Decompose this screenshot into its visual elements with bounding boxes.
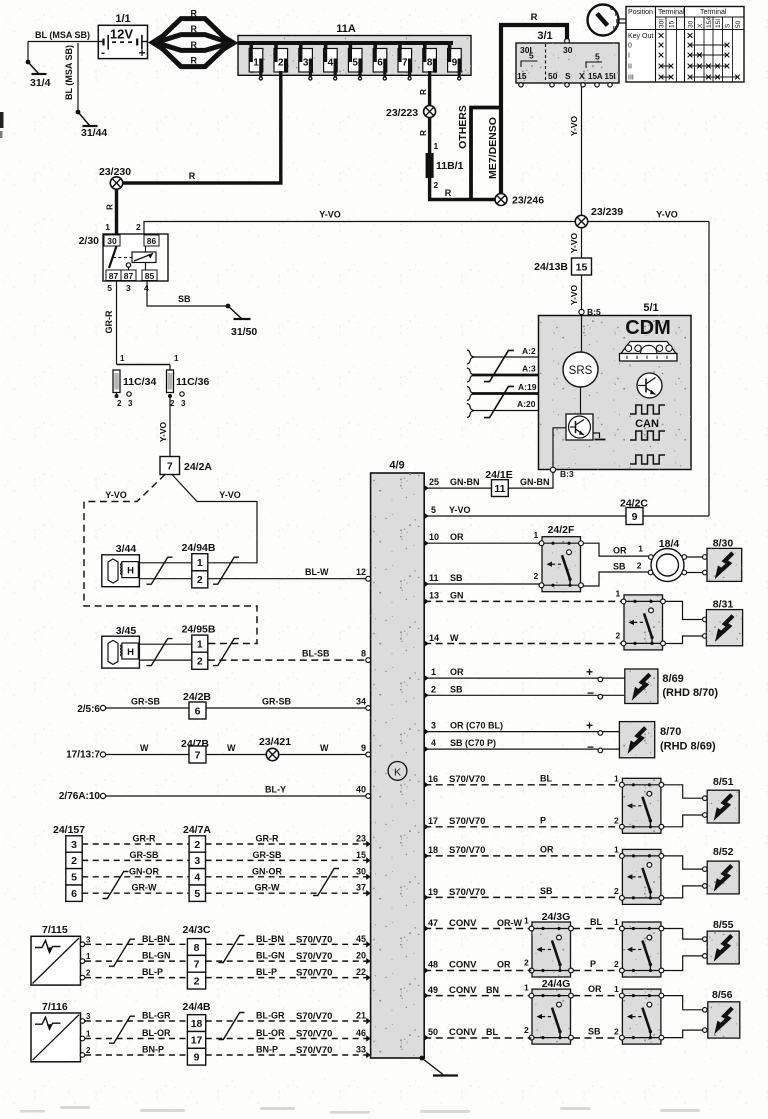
svg-text:2: 2 (86, 969, 91, 978)
svg-text:1: 1 (524, 983, 529, 993)
svg-text:R: R (106, 204, 115, 210)
svg-text:Y-VO: Y-VO (319, 210, 341, 220)
svg-text:11: 11 (429, 573, 439, 583)
svg-text:Position: Position (628, 9, 653, 16)
svg-text:15A: 15A (706, 16, 713, 28)
svg-text:Key Out: Key Out (628, 33, 653, 40)
svg-text:24/157: 24/157 (53, 824, 85, 836)
svg-text:2: 2 (197, 656, 203, 668)
svg-text:1: 1 (197, 638, 203, 650)
wire OR 24/4G to switch for 8/56 (573, 995, 621, 997)
svg-text:11C/36: 11C/36 (176, 376, 209, 388)
svg-text:GR-SB: GR-SB (131, 697, 161, 707)
svg-text:W: W (450, 633, 459, 643)
wire GR-W 24/157 to 24/7A to pin 37 (82, 892, 189, 894)
wire R 23/230 down to relay 2/30 pin 30 (115, 189, 118, 234)
key symbol at ignition (588, 5, 619, 36)
wire BL 24/3G to switch for 8/55 (573, 928, 621, 930)
wire SB 24/2F to horn ring 18/4 pin 2 (583, 572, 648, 586)
svg-text:3: 3 (126, 283, 131, 293)
svg-text:9: 9 (632, 511, 638, 523)
CAN square wave icons in CDM (630, 405, 665, 414)
svg-text:3: 3 (431, 721, 436, 731)
fuse 1 in 11A (249, 43, 253, 50)
svg-text:24/2B: 24/2B (183, 691, 211, 703)
wire Y-VO right riser down to 24/2C (708, 222, 710, 517)
svg-text:S70/V70: S70/V70 (449, 845, 485, 856)
node 23/421 (266, 748, 278, 760)
svg-text:5: 5 (595, 52, 600, 62)
svg-text:30: 30 (688, 20, 695, 28)
svg-text:5: 5 (529, 51, 534, 61)
svg-text:OR-W: OR-W (497, 918, 522, 928)
svg-text:15A: 15A (588, 72, 603, 81)
svg-text:2: 2 (170, 399, 175, 408)
svg-text:X: X (579, 71, 585, 81)
svg-text:A:20: A:20 (517, 399, 536, 409)
svg-text:1: 1 (638, 544, 643, 554)
svg-text:30: 30 (107, 236, 117, 246)
svg-text:R: R (190, 9, 197, 19)
svg-text:1: 1 (86, 1030, 91, 1039)
svg-text:GN-OR: GN-OR (252, 866, 282, 876)
svg-text:2: 2 (614, 1027, 619, 1037)
break marks at 24/95B (147, 639, 173, 666)
svg-text:1: 1 (614, 917, 619, 927)
svg-text:2: 2 (431, 685, 436, 695)
svg-text:9: 9 (452, 58, 458, 69)
svg-text:31/44: 31/44 (81, 127, 107, 139)
svg-text:BL-OR: BL-OR (142, 1028, 171, 1038)
svg-text:BL-P: BL-P (256, 967, 277, 977)
svg-text:3: 3 (86, 935, 91, 944)
svg-text:H: H (127, 647, 134, 658)
svg-text:S70/V70: S70/V70 (449, 887, 485, 898)
svg-text:34: 34 (356, 697, 366, 707)
svg-text:5: 5 (194, 888, 200, 900)
svg-text:OR: OR (588, 984, 602, 994)
svg-text:5: 5 (352, 58, 358, 69)
wire BL-Y from 2/76A:10 to pin 40 (100, 793, 105, 798)
svg-text:Y-VO: Y-VO (105, 490, 127, 500)
svg-text:GN: GN (450, 591, 464, 601)
wire bundle R battery to fuse box 11A (148, 33, 163, 52)
svg-text:15: 15 (356, 850, 366, 860)
svg-text:1: 1 (614, 774, 619, 784)
wires 18/4 to horn 8/30 (687, 556, 704, 558)
wire OR 24/2F to horn ring 18/4 pin 1 (583, 543, 648, 556)
node 23/246 (495, 194, 507, 206)
svg-text:1: 1 (120, 354, 125, 363)
svg-text:47: 47 (428, 918, 438, 928)
wire GR-SB 24/157 to 24/7A to pin 15 (82, 859, 189, 861)
svg-text:S70/V70: S70/V70 (449, 816, 485, 827)
lamp 8/70 (619, 722, 654, 758)
wire R fuse 8 down to 23/223 (428, 71, 431, 111)
svg-text:31/4: 31/4 (30, 77, 51, 89)
svg-text:87: 87 (124, 271, 134, 281)
battery 1/1 12V (98, 25, 147, 58)
instrument cluster icon in CDM (621, 342, 676, 354)
fuse 3 in 11A (299, 43, 303, 50)
svg-text:S70/V70: S70/V70 (449, 774, 485, 785)
svg-text:87: 87 (109, 271, 119, 281)
svg-text:8/70: 8/70 (660, 726, 681, 738)
svg-text:Terminal: Terminal (700, 9, 727, 16)
svg-text:-: - (101, 46, 105, 60)
svg-text:OR (C70 BL): OR (C70 BL) (450, 721, 503, 731)
svg-text:6: 6 (71, 888, 77, 900)
svg-text:OR: OR (613, 546, 627, 556)
SRS unit inside CDM (563, 352, 598, 387)
svg-text:15I: 15I (605, 72, 616, 81)
svg-text:3/44: 3/44 (116, 543, 137, 555)
svg-text:B:3: B:3 (560, 469, 574, 479)
svg-text:45: 45 (356, 934, 366, 944)
svg-text:4/9: 4/9 (389, 460, 404, 472)
svg-text:BL: BL (540, 774, 552, 784)
wire 3/45 to 24/95B pin 1 (139, 643, 191, 645)
svg-text:R: R (190, 56, 197, 66)
svg-text:8/52: 8/52 (713, 846, 734, 858)
svg-text:8/51: 8/51 (713, 776, 734, 788)
svg-text:A:2: A:2 (522, 346, 536, 356)
svg-text:14: 14 (429, 633, 439, 643)
wire Y-VO horizontal from relay 86 to right riser (144, 222, 709, 235)
wire GN-OR 24/157 to 24/7A to pin 30 (82, 876, 189, 878)
ground 31/4 (26, 60, 47, 74)
wire R 23/223 to fuse 11B/1 (428, 118, 431, 156)
svg-text:22: 22 (356, 967, 366, 977)
svg-text:R: R (445, 188, 452, 198)
wire Y-VO ignition X terminal down to 23/239 (581, 87, 583, 215)
svg-text:24/7A: 24/7A (183, 824, 211, 836)
svg-text:BL-Y: BL-Y (265, 785, 286, 795)
scan artifacts (0, 112, 4, 128)
svg-text:BL-GR: BL-GR (256, 1011, 285, 1021)
svg-text:9: 9 (361, 743, 366, 753)
svg-text:BL-GR: BL-GR (142, 1011, 171, 1021)
connector 24/2A pin 7 (160, 457, 180, 475)
fuse 9 in 11A (448, 43, 452, 50)
svg-text:SRS: SRS (569, 365, 593, 377)
svg-text:5: 5 (107, 283, 112, 293)
svg-text:Y-VO: Y-VO (656, 210, 678, 220)
svg-text:GR-SB: GR-SB (262, 697, 292, 707)
svg-text:OR: OR (450, 532, 464, 542)
svg-text:S: S (725, 23, 732, 28)
fuse box 11A (238, 36, 471, 76)
svg-text:24/4B: 24/4B (183, 1001, 211, 1013)
node 23/239 (575, 215, 587, 227)
svg-text:R: R (531, 12, 538, 23)
svg-text:−: − (587, 740, 594, 754)
wire 3/44 to 24/94B pin 1 (139, 562, 191, 564)
svg-text:1: 1 (86, 952, 91, 961)
svg-text:CONV: CONV (449, 960, 477, 971)
svg-text:2: 2 (637, 561, 642, 571)
svg-text:16: 16 (428, 774, 438, 784)
svg-text:P: P (590, 959, 596, 969)
svg-text:−: − (587, 686, 594, 700)
svg-text:19: 19 (428, 887, 438, 897)
relay 2/30 (103, 234, 168, 281)
svg-text:3: 3 (71, 839, 77, 851)
svg-text:BN-P: BN-P (142, 1045, 164, 1055)
svg-text:2/30: 2/30 (79, 235, 100, 247)
wire P 24/3G to switch for 8/55 (573, 970, 621, 972)
svg-text:49: 49 (428, 985, 438, 995)
svg-text:O: O (610, 6, 614, 12)
wire 3/44 to 24/94B pin 2 (139, 578, 191, 580)
svg-text:GR-R: GR-R (133, 834, 156, 844)
wire BN-P 7/116 pin 2 via 24/4B 9 to pin 33 (80, 1053, 85, 1058)
svg-text:R: R (190, 24, 197, 34)
svg-text:21: 21 (356, 1011, 366, 1021)
svg-text:S70/V70: S70/V70 (296, 1029, 332, 1040)
svg-text:W: W (320, 743, 329, 753)
lamp 8/69 (625, 669, 658, 704)
svg-text:GR-W: GR-W (132, 883, 157, 893)
wire BL (MSA SB) to ground 31/44 (77, 43, 79, 112)
svg-text:24/94B: 24/94B (182, 542, 216, 554)
svg-text:24/95B: 24/95B (182, 624, 216, 636)
svg-text:24/3C: 24/3C (183, 924, 211, 936)
svg-text:2/76A:10: 2/76A:10 (59, 791, 101, 802)
svg-text:II: II (628, 64, 632, 71)
svg-text:GN-BN: GN-BN (450, 477, 480, 487)
svg-text:8/31: 8/31 (713, 599, 734, 611)
ground 31/50 (226, 304, 251, 319)
wire 3/45 to 24/95B pin 2 (139, 659, 191, 661)
svg-text:3: 3 (86, 1012, 91, 1021)
svg-text:2: 2 (614, 886, 619, 896)
svg-text:Y-VO: Y-VO (569, 232, 579, 253)
svg-text:GR-R: GR-R (104, 310, 114, 333)
wire BL-P 7/115 pin 2 via 24/3C 2 to pin 22 (80, 975, 85, 980)
svg-text:2: 2 (524, 958, 529, 968)
svg-text:+: + (586, 719, 593, 733)
svg-text:11: 11 (494, 483, 505, 495)
svg-text:11B/1: 11B/1 (436, 160, 464, 172)
svg-text:15: 15 (576, 261, 588, 273)
svg-text:S: S (565, 71, 571, 81)
svg-text:11A: 11A (336, 23, 356, 35)
svg-text:SB: SB (613, 562, 626, 572)
wire BL-OR 7/116 pin 1 via 24/4B 17 to pin 46 (80, 1036, 85, 1041)
svg-text:17: 17 (428, 816, 438, 826)
svg-text:20: 20 (356, 951, 366, 961)
bus wire R inside 11A (238, 41, 453, 45)
svg-text:W: W (140, 743, 149, 753)
svg-text:BL: BL (486, 1027, 498, 1037)
svg-text:GR-SB: GR-SB (253, 850, 283, 860)
svg-text:SB: SB (540, 886, 553, 896)
wire A:3 into CDM (472, 374, 539, 377)
svg-text:S70/V70: S70/V70 (296, 951, 332, 962)
svg-text:30: 30 (356, 866, 366, 876)
ground 31/44 (76, 110, 98, 126)
svg-text:12: 12 (356, 567, 366, 577)
svg-text:BL: BL (590, 917, 602, 927)
svg-text:5/1: 5/1 (643, 302, 658, 314)
svg-text:OR: OR (540, 845, 554, 855)
wire BL-GR 7/116 pin 3 via 24/4B 18 to pin 21 (80, 1019, 85, 1024)
svg-text:7: 7 (167, 460, 173, 472)
svg-text:24/3G: 24/3G (542, 911, 571, 923)
svg-text:1: 1 (616, 589, 621, 599)
svg-text:30I: 30I (659, 19, 666, 28)
svg-text:4: 4 (431, 738, 436, 748)
svg-text:4: 4 (328, 58, 334, 69)
ignition switch 3/1 (565, 39, 570, 44)
svg-text:3: 3 (194, 855, 200, 867)
wire fuse 11B/1 down to 23/246 (430, 178, 495, 200)
svg-text:25: 25 (429, 477, 439, 487)
svg-text:8: 8 (427, 58, 433, 69)
svg-text:BN: BN (486, 985, 499, 995)
svg-text:1: 1 (431, 667, 436, 677)
svg-text:W: W (227, 743, 236, 753)
svg-text:R: R (419, 130, 428, 136)
svg-text:0: 0 (628, 43, 632, 50)
svg-text:SB: SB (178, 294, 191, 304)
svg-text:7: 7 (194, 959, 200, 971)
svg-text:BL (MSA SB): BL (MSA SB) (35, 30, 90, 40)
fuse 5 in 11A (349, 43, 353, 50)
switch for 8/31 (624, 595, 663, 650)
svg-text:CAN: CAN (635, 418, 659, 430)
wire CDM internal to B:3 (553, 428, 566, 467)
svg-text:(RHD 8/70): (RHD 8/70) (662, 687, 718, 699)
svg-text:S70/V70: S70/V70 (296, 968, 332, 979)
svg-text:R: R (189, 171, 196, 181)
svg-text:BL-OR: BL-OR (256, 1028, 285, 1038)
wire Y-VO 23/239 down to 24/13B (581, 228, 583, 258)
wires switch to 8/31 (665, 601, 704, 619)
svg-text:2: 2 (71, 855, 77, 867)
svg-text:50: 50 (548, 71, 558, 81)
svg-text:8/56: 8/56 (712, 989, 733, 1001)
svg-text:K: K (394, 767, 401, 779)
svg-text:BL (MSA SB): BL (MSA SB) (64, 45, 74, 100)
svg-text:2: 2 (534, 571, 539, 581)
ignition position table (626, 7, 744, 83)
svg-text:2: 2 (194, 839, 200, 851)
svg-text:BL-BN: BL-BN (142, 934, 170, 944)
svg-text:1: 1 (534, 530, 539, 540)
svg-text:2: 2 (194, 975, 200, 987)
svg-text:+: + (139, 46, 146, 60)
svg-text:23/246: 23/246 (512, 195, 544, 207)
svg-text:1/1: 1/1 (115, 13, 130, 25)
svg-text:S70/V70: S70/V70 (296, 934, 332, 945)
wire A:20 into CDM (472, 410, 539, 412)
svg-text:S70/V70: S70/V70 (296, 1011, 332, 1022)
wire BL (MSA SB) to ground 31/4 (28, 41, 98, 43)
fuse 7 in 11A (398, 43, 402, 50)
svg-text:6: 6 (195, 705, 201, 717)
svg-text:X: X (697, 23, 704, 28)
svg-text:17/13:7: 17/13:7 (66, 750, 100, 761)
svg-text:5: 5 (71, 872, 77, 884)
svg-text:SB: SB (450, 573, 463, 583)
svg-text:BL-GN: BL-GN (142, 951, 171, 961)
svg-text:Y-VO: Y-VO (569, 284, 579, 305)
svg-text:BL-GN: BL-GN (256, 951, 285, 961)
svg-text:1: 1 (105, 222, 110, 232)
control unit 4/9 (371, 473, 425, 1058)
svg-text:7/116: 7/116 (42, 1001, 68, 1013)
svg-text:3: 3 (303, 58, 309, 69)
svg-text:37: 37 (356, 883, 366, 893)
svg-text:31/50: 31/50 (231, 326, 257, 338)
output stage transistor inside CDM (566, 414, 593, 440)
svg-text:GR-W: GR-W (255, 883, 280, 893)
svg-text:86: 86 (147, 236, 157, 246)
svg-text:8/69: 8/69 (662, 673, 683, 685)
wire GR-R 24/157 to 24/7A to pin 23 (82, 843, 189, 845)
svg-text:30: 30 (563, 45, 573, 55)
break marks on CDM input pairs (484, 350, 514, 381)
svg-text:7: 7 (402, 58, 408, 69)
svg-text:+: + (586, 665, 593, 679)
svg-text:8: 8 (361, 649, 366, 659)
svg-text:23/239: 23/239 (591, 206, 623, 218)
svg-text:S70/V70: S70/V70 (296, 1045, 332, 1056)
break marks 24/157 rows (103, 872, 129, 899)
svg-text:III: III (628, 75, 634, 82)
svg-text:2: 2 (614, 959, 619, 969)
svg-text:4: 4 (194, 872, 200, 884)
svg-text:1: 1 (174, 354, 179, 363)
svg-text:P: P (540, 816, 546, 826)
svg-text:23/230: 23/230 (99, 166, 131, 178)
svg-text:50: 50 (735, 20, 742, 28)
svg-text:40: 40 (356, 785, 366, 795)
svg-text:24/13B: 24/13B (534, 261, 568, 273)
svg-text:10: 10 (429, 532, 439, 542)
svg-text:2: 2 (197, 574, 203, 586)
fuse 11C/36 (167, 370, 174, 393)
svg-text:2: 2 (614, 816, 619, 826)
svg-text:8/30: 8/30 (713, 538, 734, 550)
svg-text:17: 17 (191, 1035, 203, 1047)
svg-text:Terminal: Terminal (658, 9, 685, 16)
svg-text:GR-SB: GR-SB (130, 850, 160, 860)
svg-text:2/5:6: 2/5:6 (77, 704, 100, 715)
svg-text:2: 2 (524, 1025, 529, 1035)
svg-text:I: I (628, 53, 630, 60)
fuse 11C/34 (117, 364, 171, 366)
wire SB relay 85 to ground 31/50 (147, 281, 228, 306)
svg-text:1: 1 (253, 58, 259, 69)
svg-text:SB: SB (450, 685, 463, 695)
svg-text:R: R (190, 40, 197, 50)
svg-text:BL-BN: BL-BN (256, 934, 284, 944)
wire W from 17/13:7 via 24/7B to pin 9 (100, 752, 105, 757)
svg-text:BL-W: BL-W (305, 567, 329, 577)
node 23/230 (110, 177, 122, 189)
svg-text:24/2A: 24/2A (184, 461, 212, 473)
wire A:2 into CDM (472, 356, 539, 358)
break marks 24/3C rows (109, 939, 135, 966)
svg-text:BN-P: BN-P (256, 1045, 278, 1055)
svg-text:Y-VO: Y-VO (569, 115, 579, 136)
svg-text:A:19: A:19 (518, 382, 537, 392)
svg-text:8: 8 (194, 942, 200, 954)
svg-text:33: 33 (356, 1045, 366, 1055)
